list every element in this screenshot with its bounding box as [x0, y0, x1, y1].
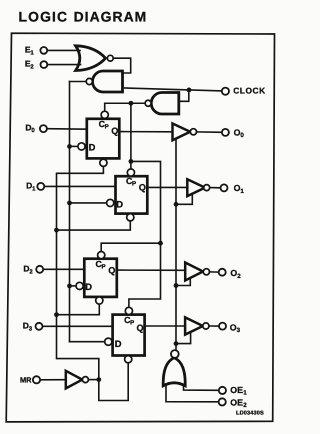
gate NAND U3 body (left-facing, clock) — [151, 93, 179, 115]
svg-text:DIAGRAM: DIAGRAM — [74, 8, 148, 24]
wire buffer O3 output — [209, 325, 219, 327]
wire FF3 Q to buffer O3 — [145, 325, 186, 327]
svg-text:Q: Q — [137, 323, 144, 333]
wire D0 input — [47, 128, 87, 131]
junction clock trunk lower — [158, 241, 163, 246]
gate NAND U2 output bubble — [86, 78, 92, 84]
terminal D2 — [36, 266, 43, 273]
wire buffer O2 output — [210, 271, 219, 273]
junction clock line — [187, 88, 192, 93]
buffer O1 bubble — [204, 185, 210, 191]
wire OE1 input — [184, 386, 219, 391]
svg-text:3: 3 — [237, 327, 241, 334]
border frame — [6, 33, 274, 422]
flip-flop FF0 — [78, 111, 119, 166]
svg-text:OE: OE — [230, 397, 243, 407]
inverter MR triangle — [66, 371, 83, 389]
gate NOR U4 output bubble — [171, 350, 179, 358]
wire enable branch to buffer O1 — [176, 194, 192, 204]
wire FF2 Q to buffer O2 — [117, 269, 185, 271]
wire E-trunk to FF1 D bubble — [70, 202, 107, 204]
svg-text:2: 2 — [237, 273, 241, 280]
svg-text:1: 1 — [243, 390, 247, 397]
wire enable branch to buffer O2 — [176, 279, 190, 286]
wire NAND U2 output to E-trunk — [70, 81, 87, 83]
flip-flop FF2 — [76, 252, 117, 305]
junction E-trunk FF0 — [67, 144, 72, 149]
gate NAND U2 body (left-facing) — [93, 71, 123, 92]
junction MR node — [96, 377, 101, 382]
wire NOR U1 output to NAND U2 input — [113, 58, 131, 73]
svg-text:D: D — [116, 199, 123, 210]
svg-text:LD03430S: LD03430S — [236, 411, 264, 417]
wire FF1 Q to buffer O1 — [147, 186, 187, 188]
junction clock at FF1 — [129, 159, 134, 164]
svg-text:Q: Q — [108, 266, 115, 276]
terminal O0 — [222, 129, 229, 136]
gate NOR U4 (output enable, pointing up) — [163, 358, 185, 386]
wire E-trunk to FF3 D bubble — [70, 341, 105, 343]
wire FF0 Q to buffer O0 — [119, 131, 172, 133]
inverter MR bubble — [82, 377, 88, 383]
flip-flop FF1 — [107, 169, 148, 221]
wire E-trunk to FF2 D bubble — [70, 285, 77, 287]
terminal OE1 — [219, 387, 226, 394]
svg-text:MR: MR — [20, 375, 32, 384]
buffer O2 bubble — [203, 269, 209, 275]
wire E1 input — [47, 49, 80, 51]
wire buffer O0 output — [197, 131, 222, 133]
svg-text:LOGIC: LOGIC — [19, 8, 69, 24]
terminal CLOCK — [222, 88, 229, 95]
junction enable O2 — [174, 283, 179, 288]
buffer O3 triangle — [185, 317, 203, 334]
flip-flop FF3 — [105, 307, 145, 363]
terminal O3 — [219, 323, 226, 330]
junction MR trunk FF2 — [54, 312, 59, 317]
svg-text:D: D — [115, 338, 122, 349]
wire D2 input — [43, 268, 84, 270]
junction MR trunk FF1 — [54, 228, 59, 233]
svg-text:Q: Q — [111, 126, 118, 136]
wire tristate enable trunk — [175, 139, 177, 350]
terminal O2 — [219, 269, 226, 276]
wire clock branch to FF1 CP — [130, 103, 132, 169]
gate NAND U3 output bubble — [145, 100, 151, 106]
junction E-trunk FF2 — [67, 284, 72, 289]
terminal E1 — [40, 47, 47, 54]
svg-text:P: P — [132, 181, 136, 188]
buffer O1 triangle — [187, 179, 205, 196]
wire OE2 input — [166, 386, 219, 402]
wire enable branch to buffer O3 — [176, 332, 191, 343]
junction E-trunk FF1 — [67, 201, 72, 206]
svg-text:D: D — [89, 142, 96, 153]
wire inverter output to MR node — [88, 379, 98, 381]
wire NAND U3 output clock line — [105, 103, 146, 111]
wire clock branch to FF2 CP — [101, 243, 160, 251]
terminal O1 — [221, 184, 228, 191]
buffer O2 triangle — [185, 263, 203, 281]
terminal D3 — [36, 323, 43, 330]
svg-text:2: 2 — [243, 402, 247, 409]
svg-text:P: P — [130, 320, 134, 327]
svg-text:CLOCK: CLOCK — [233, 86, 266, 96]
wire clock drop into NAND U3 input — [179, 90, 189, 101]
wire E-trunk to FF0 D bubble — [70, 145, 78, 147]
wire CLOCK line to NAND U2 input — [123, 88, 222, 91]
wire MR branch to FF2 R bubble — [57, 304, 100, 315]
terminal D0 — [40, 125, 47, 132]
junction enable O3 — [174, 341, 179, 346]
wire clock branch right and down — [129, 161, 161, 307]
wire buffer O1 output — [210, 187, 221, 189]
wire D1 input — [44, 185, 115, 187]
junction enable O1 — [174, 202, 179, 207]
svg-text:0: 0 — [240, 132, 244, 139]
svg-text:P: P — [102, 264, 106, 271]
wire E-trunk vertical — [69, 82, 71, 342]
gate NOR U1 body — [76, 46, 106, 71]
wire E2 input — [47, 64, 80, 66]
wire D3 input — [43, 325, 113, 327]
wire MR input to inverter — [40, 379, 66, 381]
wire MR branch to FF1 R bubble — [57, 221, 131, 230]
wire MR trunk up-left to FF0 R bubble — [57, 166, 104, 379]
svg-text:Q: Q — [139, 183, 146, 193]
svg-text:D: D — [85, 281, 92, 292]
buffer O3 bubble — [203, 323, 209, 329]
svg-text:P: P — [105, 124, 109, 131]
svg-text:1: 1 — [240, 188, 244, 195]
terminal OE2 — [219, 398, 226, 405]
junction clock out at FF0 — [129, 101, 134, 106]
buffer O0 triangle — [173, 124, 191, 141]
buffer O0 bubble — [190, 129, 196, 135]
terminal D1 — [37, 183, 44, 190]
gate NOR U1 output bubble — [107, 55, 113, 61]
svg-text:OE: OE — [230, 385, 243, 395]
terminal E2 — [41, 61, 48, 68]
wire MR branch to FF3 R bubble — [99, 363, 128, 401]
terminal MR — [33, 376, 40, 383]
